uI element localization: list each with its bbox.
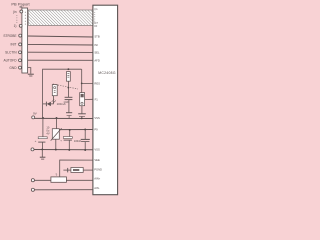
- capacitor C4 electrolytic: [42, 118, 44, 137]
- node gnd / fuse: [55, 149, 57, 151]
- R1 value marks: [67, 73, 69, 77]
- fuse F1: [56, 118, 58, 129]
- svg-text:1): 1): [14, 24, 17, 28]
- svg-text:AFD: AFD: [94, 58, 99, 62]
- wire GND stub: [28, 68, 31, 74]
- ground symbol 1: [28, 74, 34, 76]
- node RES: [81, 83, 83, 85]
- wire AUTOFD: [28, 59, 93, 61]
- dashed link: [53, 84, 78, 89]
- wire RES: [82, 82, 93, 84]
- svg-text:MC2408G: MC2408G: [98, 71, 116, 75]
- svg-text:+: +: [60, 139, 62, 143]
- connector J1 (parallel port): [22, 8, 28, 73]
- resistor R1: [67, 72, 71, 82]
- connector pin dots (inside): [24, 12, 27, 25]
- resistor R2: [51, 177, 67, 182]
- crystal/filter X1 on PGND line: [63, 169, 71, 171]
- wire C1 bottom: [68, 100, 70, 113]
- svg-text:1(nF: 1(nF: [63, 100, 69, 104]
- wire AIN+ left: [35, 179, 51, 181]
- pin AUTOFD circle: [19, 59, 22, 62]
- pin D7 circle: [19, 24, 22, 27]
- node bus A / C3 column: [81, 117, 83, 119]
- capacitor C5: [69, 130, 71, 137]
- LED box glyphs: [54, 87, 56, 89]
- wire INIT: [28, 43, 93, 46]
- op-amp IC U1: [93, 5, 118, 195]
- node bus A / supply column: [42, 117, 44, 119]
- svg-text:AUTOFD: AUTOFD: [3, 59, 17, 63]
- node bus B / C5: [69, 129, 71, 131]
- svg-text:STB: STB: [94, 35, 99, 39]
- svg-text:F1: F1: [95, 97, 99, 101]
- wire bus A (supply rail): [33, 117, 93, 119]
- svg-text:4V: 4V: [46, 132, 49, 136]
- svg-text:INI: INI: [94, 43, 98, 47]
- node R1 top: [67, 68, 69, 70]
- svg-text:VSS: VSS: [94, 148, 100, 152]
- wire supply top: [43, 69, 82, 118]
- node bus A / fuse: [56, 117, 58, 119]
- node gnd / C5: [68, 149, 70, 151]
- capacitor C6: [84, 130, 86, 140]
- svg-text:100nF: 100nF: [74, 139, 82, 143]
- svg-text:9V: 9V: [33, 112, 37, 116]
- wire AIN+ right: [66, 179, 93, 181]
- pin INIT circle: [19, 43, 22, 46]
- wire STROBE: [28, 36, 93, 37]
- wire F1 pin: [85, 98, 93, 100]
- capacitor C2 plates: [66, 113, 72, 116]
- wire PGND: [83, 169, 93, 171]
- svg-text:?: ?: [55, 173, 57, 177]
- LED box D2: [52, 85, 57, 96]
- svg-text:AIN+: AIN+: [94, 177, 100, 181]
- svg-text:IO: IO: [94, 24, 97, 28]
- wire bus B: [59, 129, 93, 131]
- svg-text:(in: (in: [94, 7, 97, 11]
- pin GND2 circle: [31, 148, 34, 151]
- pin 9V circle: [32, 116, 35, 119]
- data bus (hatched): [28, 10, 93, 25]
- svg-text:VSS: VSS: [94, 116, 100, 120]
- svg-text:AIN-: AIN-: [94, 186, 99, 190]
- ground symbol 2: [41, 150, 43, 158]
- svg-text:STROBE: STROBE: [3, 34, 16, 38]
- node gnd / C4: [41, 148, 43, 150]
- pin AIN- circle: [31, 188, 34, 191]
- diode D1: [43, 102, 47, 107]
- svg-text:GND: GND: [9, 66, 17, 70]
- svg-text:P9: P9: [94, 128, 98, 132]
- IC dots: [93, 12, 96, 21]
- pin SLCTIN circle: [19, 51, 22, 54]
- pin D0 circle: [20, 10, 23, 13]
- svg-text:+: +: [35, 139, 37, 143]
- pin GND circle: [19, 66, 22, 69]
- capacitor C3 plates: [81, 106, 83, 114]
- node dashed junction: [68, 87, 70, 89]
- pin AIN+ circle: [31, 179, 34, 182]
- svg-text:PB Paport: PB Paport: [11, 2, 30, 7]
- svg-text:SEL: SEL: [94, 51, 100, 55]
- wire LED box bottom: [51, 96, 54, 104]
- wire AIN-: [35, 189, 94, 191]
- svg-text:PGND: PGND: [94, 168, 102, 172]
- svg-text:RES: RES: [94, 82, 100, 86]
- svg-text:(in: (in: [13, 10, 17, 14]
- svg-text:SLCTIN: SLCTIN: [5, 51, 17, 55]
- svg-text:INIT: INIT: [10, 43, 16, 47]
- capacitor C1 100n: [65, 97, 73, 99]
- wire ground rail: [33, 149, 94, 151]
- node bus B / C6: [84, 129, 86, 131]
- trimmer R3: [80, 93, 85, 106]
- wire SLCTIN: [28, 51, 93, 53]
- wire VEE: [60, 160, 93, 177]
- pin STROBE circle: [19, 34, 22, 37]
- node gnd / C6: [84, 149, 86, 151]
- svg-text:VEE: VEE: [94, 158, 100, 162]
- wire R1 bottom: [67, 81, 69, 97]
- LED arrows: [52, 99, 56, 103]
- wire RES branch vertical: [81, 69, 83, 92]
- label ellipsis dots: [16, 15, 19, 23]
